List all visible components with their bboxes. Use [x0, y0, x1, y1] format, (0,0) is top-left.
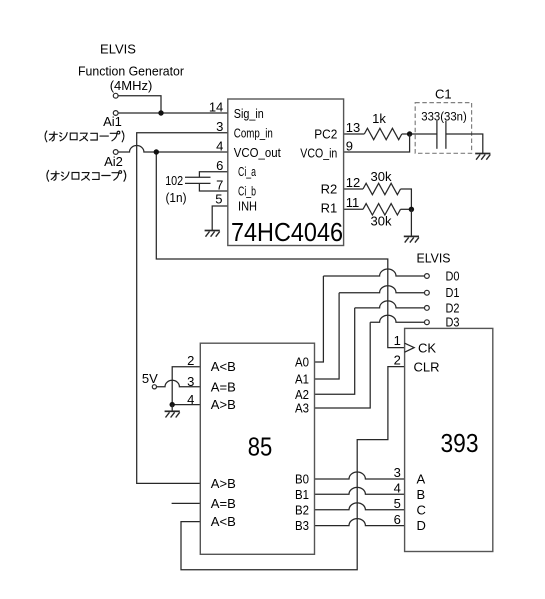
svg-text:A: A	[417, 472, 426, 487]
wire: C1 right plate to ground	[446, 134, 483, 154]
svg-text:B3: B3	[295, 518, 309, 533]
svg-text:D3: D3	[446, 315, 460, 330]
svg-text:4: 4	[394, 481, 401, 496]
comparator U2 85 box	[200, 343, 314, 554]
svg-text:D2: D2	[446, 300, 460, 315]
svg-text:CLR: CLR	[414, 359, 440, 374]
svg-text:2: 2	[187, 353, 194, 368]
svg-text:74HC4046: 74HC4046	[231, 217, 343, 247]
svg-text:5: 5	[394, 496, 401, 511]
svg-text:A=B: A=B	[211, 496, 236, 511]
label oscilloscope (katakana) line1	[45, 131, 124, 142]
svg-text:3: 3	[394, 465, 401, 480]
svg-text:PC2: PC2	[314, 127, 337, 142]
svg-text:INH: INH	[238, 199, 257, 214]
wire: 85 pin4	[172, 404, 200, 406]
wire: VCO_out junction to 74HC4046 pin4	[156, 151, 228, 153]
terminals D0-D3	[425, 274, 430, 279]
svg-text:102: 102	[165, 173, 183, 188]
junction: R1/R2 node	[409, 207, 414, 212]
resistor 1k on PC2 pin13	[344, 133, 365, 135]
wire: 85 A-less-B output loop to 393 CLR	[181, 367, 405, 570]
label oscilloscope (katakana) line2	[47, 170, 126, 181]
capacitor C1 plates	[436, 121, 438, 149]
svg-text:A1: A1	[295, 372, 309, 387]
svg-text:D0: D0	[446, 269, 460, 284]
capacitor C1 dashed box	[415, 103, 471, 154]
svg-text:Sig_in: Sig_in	[234, 106, 264, 121]
ground for INH	[205, 231, 220, 237]
svg-text:A<B: A<B	[211, 359, 236, 374]
ground for 85 inputs	[165, 411, 180, 417]
svg-text:(4MHz): (4MHz)	[110, 78, 153, 93]
svg-text:R1: R1	[321, 201, 338, 216]
terminal 5V	[152, 385, 156, 389]
wire: A1 to D1	[315, 293, 340, 379]
wire: 85 pin2 to pin4 tie	[172, 367, 200, 405]
svg-text:2: 2	[394, 352, 401, 367]
svg-text:3: 3	[216, 119, 223, 134]
svg-text:ELVIS: ELVIS	[100, 42, 136, 57]
terminal Ai2	[113, 150, 118, 155]
svg-text:14: 14	[209, 99, 223, 114]
svg-text:D: D	[417, 518, 426, 533]
svg-text:6: 6	[394, 512, 401, 527]
wire: node down to VCO_in pin9	[344, 134, 410, 152]
svg-text:5: 5	[215, 191, 222, 206]
svg-text:A3: A3	[295, 401, 309, 416]
svg-text:5V: 5V	[142, 371, 158, 386]
svg-text:B0: B0	[295, 472, 309, 487]
svg-text:VCO_out: VCO_out	[234, 145, 281, 160]
counter U3 393 box	[405, 328, 493, 551]
svg-text:B1: B1	[295, 487, 309, 502]
resistor 30k on R2 pin12	[344, 188, 363, 190]
svg-text:Ai1: Ai1	[103, 114, 122, 129]
svg-text:R2: R2	[321, 182, 338, 197]
wire: A0 to D0	[315, 276, 324, 362]
svg-text:Ci_b: Ci_b	[238, 184, 256, 199]
terminal: 4MHz output	[113, 93, 118, 98]
junction: pin4/ground	[170, 402, 175, 407]
wire: A2 to D2	[315, 308, 355, 394]
terminal Ai1	[113, 111, 118, 116]
wire: node to ground	[410, 209, 412, 236]
resistor 30k on R1 pin11	[344, 208, 363, 210]
svg-text:A<B: A<B	[211, 514, 236, 529]
wire: 4MHz source to Ai1 node	[116, 96, 161, 113]
clock triangle on CK	[405, 343, 415, 352]
junction: VCO_out node	[154, 149, 159, 154]
svg-text:393: 393	[441, 428, 479, 458]
svg-text:Ai2: Ai2	[104, 154, 123, 169]
wire stub: 85 A-equal-B output	[172, 502, 201, 504]
svg-text:A0: A0	[295, 355, 309, 370]
svg-text:12: 12	[346, 175, 360, 190]
svg-text:ELVIS: ELVIS	[417, 251, 451, 266]
svg-text:B: B	[417, 487, 426, 502]
svg-text:333(33n): 333(33n)	[421, 112, 467, 124]
wire: Ai1 to 74HC4046 pin14 Sig_in	[116, 112, 228, 114]
svg-text:13: 13	[346, 120, 360, 135]
svg-text:6: 6	[216, 158, 223, 173]
wire: 5V to 85 pin3 with hop	[154, 380, 200, 386]
svg-text:Function Generator: Function Generator	[78, 64, 185, 79]
svg-text:(1n): (1n)	[166, 190, 187, 205]
svg-text:4: 4	[187, 392, 194, 407]
svg-text:CK: CK	[418, 340, 436, 355]
op IC U1 74HC4046 box	[228, 99, 344, 246]
svg-text:11: 11	[346, 195, 360, 210]
svg-text:D1: D1	[446, 285, 460, 300]
svg-text:4: 4	[216, 138, 223, 153]
svg-text:B2: B2	[295, 502, 309, 517]
svg-text:Ci_a: Ci_a	[238, 164, 257, 179]
svg-text:A=B: A=B	[211, 379, 236, 394]
capacitor 102 (1n) on Ci_a/Ci_b	[199, 172, 227, 178]
wire: Comp_in pin3 to 85 A-greater-B output	[137, 133, 228, 484]
svg-text:1k: 1k	[372, 111, 386, 126]
svg-text:A>B: A>B	[211, 397, 236, 412]
ground for C1	[475, 154, 490, 160]
wire: A3 to D3	[315, 322, 371, 408]
junction: Sig_in node	[158, 110, 163, 115]
svg-text:C1: C1	[435, 87, 452, 102]
svg-text:7: 7	[216, 177, 223, 192]
ground for R1/R2	[404, 236, 419, 242]
wire: VCO_out down and across to 393 CK pin1	[156, 152, 404, 348]
svg-text:1: 1	[394, 333, 401, 348]
wire: Ai2 to VCO_out with hop over Comp_in line	[116, 146, 157, 152]
svg-text:85: 85	[248, 432, 273, 462]
wire: INH pin5 to ground	[212, 206, 228, 231]
svg-text:A>B: A>B	[211, 476, 236, 491]
svg-text:3: 3	[187, 374, 194, 389]
wires B0-B3 to 393 A-D with hops	[315, 472, 405, 479]
svg-text:C: C	[417, 502, 426, 517]
svg-text:Comp_in: Comp_in	[234, 126, 273, 141]
svg-text:30k: 30k	[371, 169, 392, 184]
svg-text:30k: 30k	[371, 213, 392, 228]
svg-text:9: 9	[346, 138, 353, 153]
junction: PC2/VCO_in/C1 node	[407, 131, 412, 136]
svg-text:VCO_in: VCO_in	[300, 146, 337, 161]
